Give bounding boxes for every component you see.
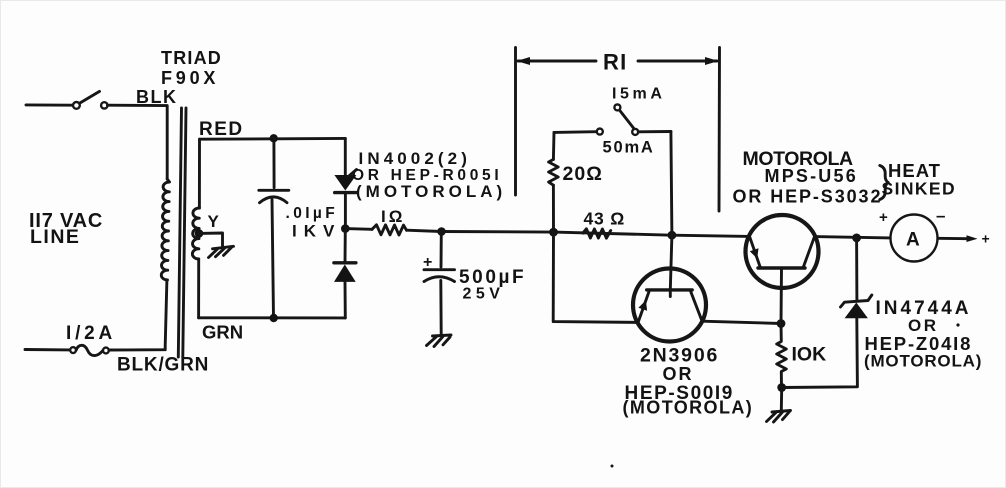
transistor Q2 collector <box>803 237 815 268</box>
node center tap <box>195 229 204 238</box>
diode D1 1N4002 <box>334 175 356 191</box>
svg-text:(MOTOROLA): (MOTOROLA) <box>864 352 982 371</box>
svg-text:(MOTOROLA): (MOTOROLA) <box>356 182 506 201</box>
svg-text:I/2A: I/2A <box>66 323 116 344</box>
wire D2 anode to GRN rail <box>344 282 347 318</box>
svg-text:IΩ: IΩ <box>381 207 405 226</box>
node rectifier output <box>341 224 350 233</box>
wire 50mA row left <box>554 130 597 134</box>
wire 500uF bottom lead <box>439 281 442 335</box>
node 20ohm main rail <box>549 228 558 237</box>
svg-text:50mA: 50mA <box>603 139 655 157</box>
wire AC hot lead left <box>26 103 73 106</box>
dimension R1 arrow line right <box>638 60 717 63</box>
node Q2 base / 10K <box>777 319 786 328</box>
dimension R1 arrow line left <box>518 60 596 63</box>
wire 20ohm to main rail <box>552 185 555 232</box>
transformer T1 primary winding <box>161 179 169 280</box>
wire 20ohm branch top <box>552 132 555 159</box>
switch S2 50mA left contact <box>597 129 603 135</box>
transformer T1 secondary winding <box>192 208 199 259</box>
wire ammeter to output arrow <box>937 237 968 240</box>
svg-text:F90X: F90X <box>161 68 219 88</box>
transistor Q1 base bar <box>647 288 693 291</box>
transistor Q2 base bar <box>758 266 805 269</box>
transistor Q2 emitter with arrow <box>750 236 761 268</box>
small dot artifact after OR <box>956 323 959 326</box>
wire 10K node to ground <box>780 388 783 411</box>
svg-text:I5mA: I5mA <box>612 86 666 103</box>
svg-text:OR HEP-S3032: OR HEP-S3032 <box>733 187 883 207</box>
transistor Q1 emitter with arrow <box>638 291 649 322</box>
switch S2 pole contact <box>632 129 638 135</box>
node Q1 base rail junction <box>668 231 677 240</box>
dimension R1 right arrowhead <box>705 57 719 65</box>
node zener top rail <box>852 234 861 243</box>
fuse F1 left terminal <box>70 347 76 353</box>
wire main rail Q2 to zener node <box>815 237 891 238</box>
wire main rail base node to Q2 <box>672 235 750 236</box>
transistor Q2 MPS-U56 circle <box>746 215 819 288</box>
svg-text:20Ω: 20Ω <box>563 163 603 185</box>
wire secondary top to RED corner <box>198 139 201 208</box>
transformer T1 core line 2 <box>183 108 186 357</box>
svg-text:GRN: GRN <box>202 322 243 343</box>
wire BLK from switch to transformer primary top <box>108 105 168 179</box>
svg-text:RED: RED <box>199 119 244 140</box>
switch S2 15mA contact <box>614 104 620 110</box>
svg-text:OR: OR <box>663 364 694 384</box>
transistor Q1 2N3906 circle <box>633 269 706 342</box>
fuse F1 1/2A element <box>76 345 103 355</box>
svg-text:+: + <box>879 209 888 226</box>
artifact dot bottom <box>611 465 614 468</box>
zener D3 body <box>845 303 868 319</box>
resistor 10K <box>777 324 787 388</box>
wire diode branch top <box>344 138 347 175</box>
svg-text:IN4002(2): IN4002(2) <box>359 149 472 168</box>
dimension R1 right bar <box>718 48 721 212</box>
node RED/.01uF junction <box>270 134 278 142</box>
capacitor C2 500uF bottom plate <box>424 277 455 282</box>
wire switch right branch down <box>671 132 672 236</box>
svg-text:Y: Y <box>208 212 220 231</box>
svg-text:RI: RI <box>603 50 627 75</box>
transformer T1 core line 1 <box>178 108 181 357</box>
dimension R1 left bar <box>514 48 517 196</box>
wire 500uF top lead <box>440 232 443 268</box>
wire node to D2 cathode <box>344 229 347 263</box>
wire Q1 collector to base node of Q2 <box>702 321 781 323</box>
svg-text:MPS-U56: MPS-U56 <box>765 166 858 186</box>
capacitor C1 .01uF top plate <box>259 189 289 192</box>
wire BLK/GRN from fuse to transformer primary bottom <box>109 280 167 350</box>
svg-text:IKV: IKV <box>292 222 341 241</box>
switch S1 throw terminal <box>101 102 107 108</box>
leader to diode label <box>349 170 357 177</box>
wire .01uF top lead <box>272 138 275 187</box>
svg-text:(MOTOROLA): (MOTOROLA) <box>623 398 754 418</box>
wire Q1 base lead <box>670 235 672 290</box>
ground center tap <box>209 246 234 257</box>
wire main rail filter to 20ohm node <box>442 230 554 234</box>
diode D2 1N4002 <box>334 261 356 264</box>
transistor Q1 base lead stub <box>669 290 672 297</box>
wire RED rail <box>200 137 346 141</box>
switch S2 lever <box>620 111 635 130</box>
svg-text:43 Ω: 43 Ω <box>584 209 626 229</box>
transistor Q1 collector <box>691 291 703 321</box>
switch S1 lever <box>80 91 100 103</box>
ground 10K <box>767 411 791 423</box>
arrow output <box>967 235 978 242</box>
svg-text:TRIAD: TRIAD <box>161 48 222 68</box>
wire .01uF bottom lead <box>272 200 274 318</box>
wire 50mA row right <box>638 130 671 133</box>
ground 500uF <box>427 335 452 347</box>
wire D1 cathode to node <box>344 193 347 229</box>
wire secondary bottom to GRN corner <box>197 259 200 318</box>
dimension R1 left arrowhead <box>517 57 531 65</box>
svg-text:+: + <box>982 231 990 247</box>
svg-text:.0IµF: .0IµF <box>286 205 339 222</box>
svg-text:IOK: IOK <box>792 344 827 366</box>
wire AC neutral lead left <box>25 348 70 351</box>
svg-text:LINE: LINE <box>30 226 80 248</box>
svg-text:BLK: BLK <box>136 87 178 107</box>
node GRN/.01uF junction <box>270 314 278 322</box>
resistor 20 ohm <box>549 159 559 185</box>
wire zener anode down and to ground node <box>782 318 858 387</box>
capacitor C2 500uF top plate <box>424 268 455 271</box>
wire center tap to ground <box>199 233 223 246</box>
svg-text:BLK/GRN: BLK/GRN <box>117 355 209 376</box>
fuse F1 right terminal <box>103 348 109 354</box>
svg-text:SINKED: SINKED <box>882 179 957 199</box>
wire node to R 1ohm <box>345 227 372 231</box>
wire emitter branch from rail node down <box>553 232 638 322</box>
switch S1 pole terminal <box>73 102 80 109</box>
resistor R 1 ohm <box>372 225 407 235</box>
node 10K bottom <box>777 383 786 392</box>
svg-text:A: A <box>906 230 920 251</box>
capacitor C1 .01uF bottom plate <box>260 197 288 203</box>
wire GRN rail <box>199 316 346 319</box>
zener D3 cathode bar with bends <box>841 295 872 307</box>
wire zener top lead <box>855 238 858 300</box>
resistor 43 ohm <box>583 229 611 238</box>
transistor Q2 base lead down <box>780 268 783 324</box>
svg-text:–: – <box>936 206 945 225</box>
ammeter M1 circle <box>891 215 938 262</box>
node filter cap junction <box>437 227 446 236</box>
brace heat sinked <box>880 166 888 200</box>
wire main rail 20ohm node to base node <box>554 232 672 235</box>
wire R 1ohm to filter node <box>407 230 442 231</box>
svg-text:25V: 25V <box>463 286 505 303</box>
